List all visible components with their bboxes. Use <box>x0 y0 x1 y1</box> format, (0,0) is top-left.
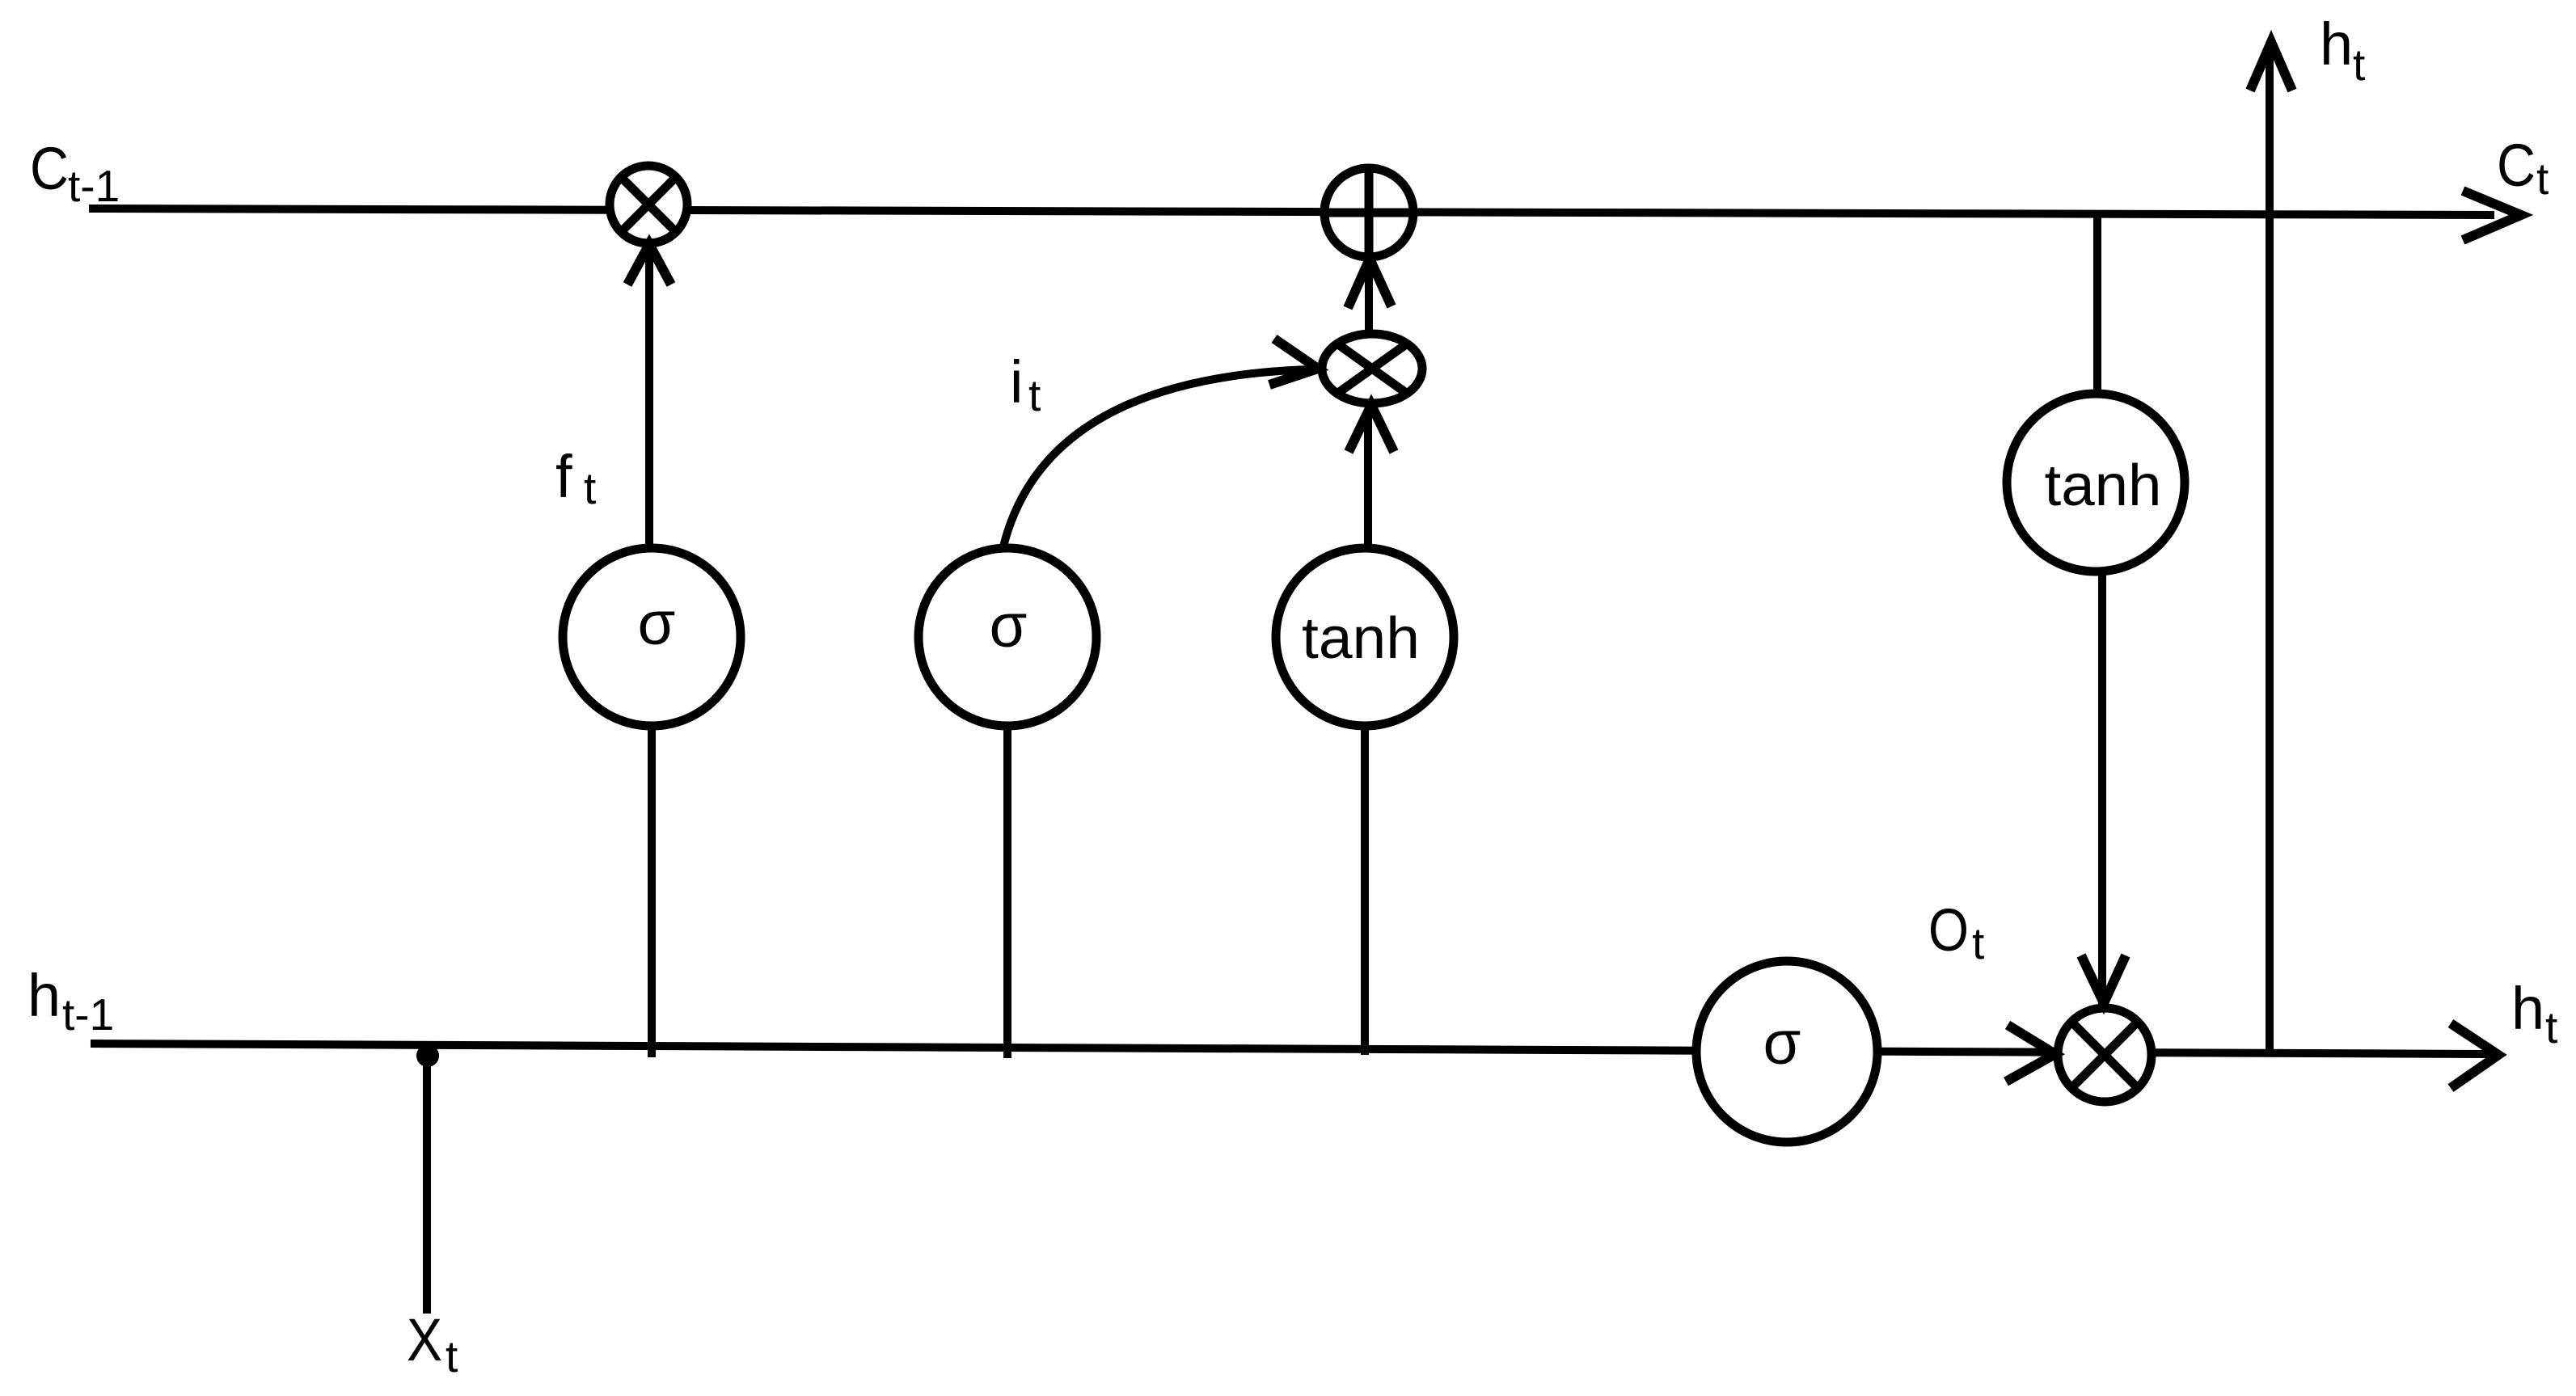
svg-text:t: t <box>446 1331 458 1381</box>
svg-text:h: h <box>27 962 61 1029</box>
svg-text:tanh: tanh <box>1302 606 1420 671</box>
svg-text:σ: σ <box>638 589 676 658</box>
svg-text:t: t <box>1028 370 1041 420</box>
svg-text:σ: σ <box>990 592 1028 660</box>
svg-text:i: i <box>1010 348 1023 415</box>
svg-text:C: C <box>2497 132 2536 199</box>
svg-text:t: t <box>584 463 596 513</box>
svg-text:t: t <box>1972 918 1984 968</box>
svg-text:σ: σ <box>1763 1009 1801 1078</box>
svg-text:t: t <box>2536 154 2549 204</box>
svg-text:t-1: t-1 <box>68 161 120 211</box>
svg-text:t: t <box>2545 1002 2557 1052</box>
svg-text:h: h <box>2320 11 2353 78</box>
svg-text:t-1: t-1 <box>62 989 114 1040</box>
svg-text:t: t <box>2353 40 2365 90</box>
svg-text:X: X <box>407 1306 442 1373</box>
svg-text:f: f <box>555 443 572 510</box>
svg-text:tanh: tanh <box>2045 453 2162 518</box>
svg-text:C: C <box>30 135 69 202</box>
svg-text:h: h <box>2511 975 2544 1042</box>
svg-text:O: O <box>1928 896 1969 964</box>
